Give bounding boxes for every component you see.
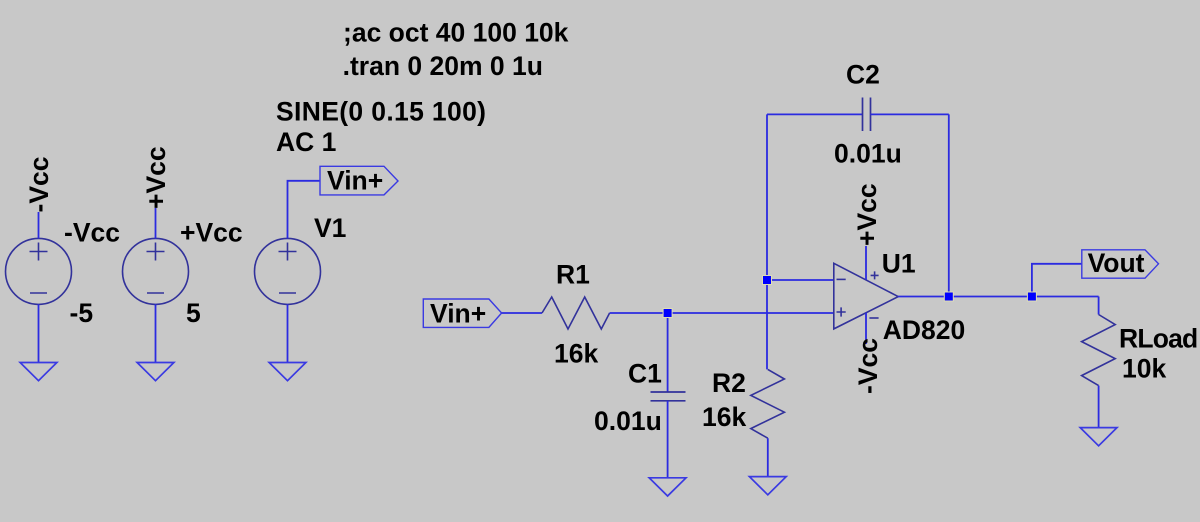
op-amp - input marker xyxy=(837,278,846,280)
voltage source V2 (-Vcc) circle xyxy=(6,238,72,304)
svg-text:.tran 0 20m 0 1u: .tran 0 20m 0 1u xyxy=(343,51,543,81)
wire op-amp top power stub xyxy=(865,246,867,280)
svg-text:V1: V1 xyxy=(314,213,346,243)
value SINE(0 0.15 100) of V1 xyxy=(276,97,486,127)
net flag Vout xyxy=(1082,248,1159,278)
svg-text:;ac oct 40 100 10k: ;ac oct 40 100 10k xyxy=(343,18,569,48)
wire RLoad to ground xyxy=(1098,386,1100,428)
ground below R2 xyxy=(749,477,786,495)
junction feedback node xyxy=(763,276,772,285)
wire op-amp bottom power stub xyxy=(865,313,867,344)
wire flag to R1 xyxy=(502,312,542,314)
label R1 xyxy=(556,260,590,290)
wire R1 to node A xyxy=(610,312,668,314)
wire C2 left xyxy=(767,113,863,115)
svg-text:-Vcc: -Vcc xyxy=(853,338,883,394)
svg-text:-5: -5 xyxy=(70,298,94,328)
label RLoad xyxy=(1119,324,1197,354)
label U1 xyxy=(882,249,916,279)
wire feedback node to op-amp - input xyxy=(767,279,834,281)
value 10k of RLoad xyxy=(1122,354,1166,384)
label C2 xyxy=(846,60,880,90)
svg-text:SINE(0 0.15 100): SINE(0 0.15 100) xyxy=(276,97,486,127)
wire V3 top stub xyxy=(155,208,157,238)
net flag Vin+ at V1 xyxy=(320,166,398,196)
wire feedback vertical xyxy=(766,114,768,369)
label C1 xyxy=(628,359,662,389)
capacitor C1 xyxy=(651,392,686,401)
net label -Vcc (rotated) at V2 xyxy=(24,157,54,213)
net label +Vcc (rotated) at op-amp top xyxy=(852,183,882,246)
value AD820 of U1 xyxy=(883,315,966,345)
net label +Vcc (rotated) at V3 xyxy=(141,146,171,209)
wire op-amp output xyxy=(898,296,1098,298)
voltage source V1 circle xyxy=(255,238,321,304)
value -5 of V2 xyxy=(70,298,94,328)
label V1 xyxy=(314,213,346,243)
svg-text:0.01u: 0.01u xyxy=(834,139,902,169)
spice directive ;ac oct 40 100 10k xyxy=(343,18,569,48)
svg-text:Vout: Vout xyxy=(1088,248,1145,278)
resistor R2 xyxy=(751,369,785,438)
svg-text:C2: C2 xyxy=(846,60,880,90)
svg-text:+Vcc: +Vcc xyxy=(180,218,243,248)
wire C1 to ground xyxy=(667,401,669,478)
wire node A down to C1 xyxy=(667,313,669,392)
resistor RLoad xyxy=(1082,315,1116,386)
op-amp + input marker xyxy=(837,307,846,316)
junction Vout node xyxy=(1027,292,1036,301)
svg-text:U1: U1 xyxy=(882,249,916,279)
svg-text:AC 1: AC 1 xyxy=(276,127,336,157)
resistor R1 xyxy=(542,297,610,329)
ground below V1 xyxy=(269,363,306,381)
ground below RLoad xyxy=(1080,428,1117,446)
value 5 of V3 xyxy=(186,298,201,328)
wire V3 bottom xyxy=(155,304,157,362)
net flag Vin+ at input xyxy=(423,299,501,329)
wire R2 to ground xyxy=(767,438,769,476)
svg-text:C1: C1 xyxy=(628,359,662,389)
ground below V2 xyxy=(20,363,57,381)
wire RLoad top xyxy=(1098,297,1100,315)
svg-text:5: 5 xyxy=(186,298,201,328)
label +Vcc of V3 xyxy=(180,218,243,248)
wire node A to op-amp + input xyxy=(668,312,834,314)
value AC 1 of V1 xyxy=(276,127,336,157)
svg-text:16k: 16k xyxy=(554,339,598,369)
value 0.01u of C1 xyxy=(594,406,662,436)
voltage source V3 (+Vcc) circle xyxy=(123,238,189,304)
svg-text:AD820: AD820 xyxy=(883,315,966,345)
junction output node xyxy=(944,292,953,301)
svg-text:+Vcc: +Vcc xyxy=(852,183,882,246)
svg-text:10k: 10k xyxy=(1122,354,1166,384)
junction node A xyxy=(663,309,672,318)
svg-text:-Vcc: -Vcc xyxy=(64,218,120,248)
wire V2 top stub xyxy=(38,212,40,238)
label -Vcc of V2 xyxy=(64,218,120,248)
svg-text:R1: R1 xyxy=(556,260,590,290)
svg-text:16k: 16k xyxy=(702,402,746,432)
wire V2 bottom xyxy=(38,304,40,362)
capacitor C2 xyxy=(863,98,871,132)
op-amp U1 triangle xyxy=(834,263,898,329)
value 16k of R1 xyxy=(554,339,598,369)
wire C2 right xyxy=(871,113,949,115)
svg-text:+Vcc: +Vcc xyxy=(141,146,171,209)
svg-text:R2: R2 xyxy=(712,368,746,398)
label R2 xyxy=(712,368,746,398)
svg-text:RLoad: RLoad xyxy=(1119,324,1197,354)
wire V1 bottom xyxy=(287,304,289,362)
spice directive .tran 0 20m 0 1u xyxy=(343,51,543,81)
svg-text:-Vcc: -Vcc xyxy=(24,157,54,213)
ground below V3 xyxy=(137,363,174,381)
wire feedback right vertical xyxy=(948,114,950,296)
svg-text:Vin+: Vin+ xyxy=(430,299,486,329)
wire V1 top to flag xyxy=(288,181,321,239)
ground below C1 xyxy=(649,478,686,496)
net label -Vcc (rotated) at op-amp bottom xyxy=(853,338,883,394)
op-amp - power marker xyxy=(869,317,878,319)
wire Vout tap xyxy=(1032,264,1082,297)
value 0.01u of C2 xyxy=(834,139,902,169)
value 16k of R2 xyxy=(702,402,746,432)
svg-text:0.01u: 0.01u xyxy=(594,406,662,436)
op-amp + power marker xyxy=(871,271,879,279)
svg-text:Vin+: Vin+ xyxy=(327,166,383,196)
